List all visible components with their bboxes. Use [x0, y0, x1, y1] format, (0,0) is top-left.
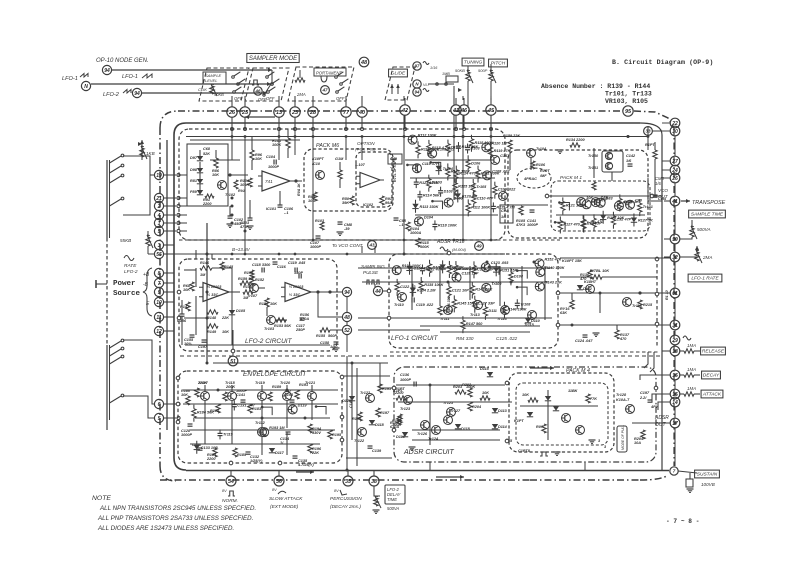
svg-text:R150: R150	[244, 271, 254, 275]
switch	[110, 339, 124, 348]
svg-text:1MB: 1MB	[442, 72, 450, 76]
resistor R186 56K	[192, 405, 215, 422]
junction	[655, 257, 659, 261]
svg-text:2MA: 2MA	[702, 255, 712, 260]
junction	[164, 221, 181, 224]
label OFF	[266, 96, 275, 101]
resistor C109 .022	[493, 182, 517, 199]
resistor R112 100K	[466, 199, 490, 216]
capacitor R115 4.7M	[491, 202, 516, 212]
resistor RVA 1K	[234, 180, 246, 193]
junction	[304, 417, 307, 420]
resistor R136 470	[579, 270, 592, 281]
svg-text:77: 77	[343, 110, 350, 116]
svg-text:13: 13	[276, 110, 282, 116]
svg-text:K1PT: K1PT	[514, 419, 524, 423]
svg-text:D110: D110	[531, 319, 541, 323]
terminal 52	[342, 325, 351, 334]
resistor R91 2200	[202, 194, 214, 206]
junction	[278, 461, 282, 465]
svg-text:10K: 10K	[270, 302, 277, 306]
wire	[180, 355, 660, 357]
resistor R205 10K	[480, 391, 490, 400]
wire	[662, 160, 670, 162]
junction	[392, 428, 396, 432]
switch	[110, 197, 124, 206]
box CM2	[602, 151, 636, 172]
svg-text:38: 38	[371, 479, 377, 485]
svg-text:VCO: VCO	[658, 188, 668, 193]
transistor C147	[491, 154, 510, 165]
diode R120 1M	[455, 189, 478, 202]
svg-text:11: 11	[156, 315, 161, 321]
svg-text:C121 10P: C121 10P	[452, 289, 469, 293]
svg-text:TRANSPOSE: TRANSPOSE	[692, 200, 726, 206]
svg-text:10K: 10K	[212, 173, 219, 177]
svg-text:10A: 10A	[308, 199, 315, 203]
wire	[510, 148, 612, 181]
resistor R195 470A	[328, 430, 342, 439]
resistor R89 10A	[308, 192, 317, 203]
junction	[164, 416, 181, 419]
resistor R147	[180, 302, 190, 311]
capacitor Tr119	[218, 429, 234, 439]
svg-text:94: 94	[134, 91, 140, 97]
svg-text:K10PT: K10PT	[312, 157, 324, 161]
wire	[554, 221, 565, 230]
junction	[176, 402, 180, 406]
wire	[405, 160, 498, 215]
wire	[662, 169, 670, 171]
svg-text:R146: R146	[200, 261, 210, 265]
label rotated	[447, 296, 451, 310]
junction	[164, 229, 181, 232]
svg-text:K18HT: K18HT	[584, 280, 597, 284]
junction	[654, 386, 658, 390]
svg-text:500VA: 500VA	[387, 506, 400, 511]
svg-text:Tr104: Tr104	[443, 167, 454, 171]
svg-text:R121 10K: R121 10K	[566, 203, 583, 207]
resistor 77K	[586, 394, 597, 403]
label K10PT IC10	[312, 157, 324, 166]
terminal 17	[670, 418, 680, 428]
terminal 2	[154, 201, 163, 210]
resistor D111	[483, 303, 497, 320]
resistor R191	[295, 383, 308, 399]
resistor 2MA	[295, 70, 306, 97]
wire	[404, 115, 491, 240]
junction	[674, 393, 677, 396]
resistor R184 2200	[206, 448, 217, 461]
svg-text:OFF: OFF	[336, 96, 345, 101]
svg-text:PACK M 4: PACK M 4	[566, 368, 590, 374]
wire	[164, 291, 174, 293]
transistor 10K	[577, 196, 594, 207]
resistor 1KB	[138, 140, 155, 160]
wire	[164, 316, 174, 318]
svg-text:D98: D98	[190, 168, 198, 172]
svg-text:TUNING: TUNING	[464, 60, 483, 66]
resistor R104 1000A	[406, 222, 422, 235]
junction	[176, 376, 180, 380]
terminal 12	[154, 326, 163, 335]
junction	[490, 135, 493, 138]
svg-text:C147: C147	[349, 398, 353, 408]
svg-text:D111: D111	[488, 309, 497, 313]
junction	[231, 205, 234, 208]
svg-text:D118: D118	[375, 423, 385, 427]
svg-text:39K: 39K	[342, 201, 349, 205]
resistor Tr131	[581, 215, 596, 232]
capacitor R118 100K	[432, 220, 457, 230]
svg-text:10K: 10K	[482, 391, 489, 395]
svg-text:C193: C193	[284, 393, 294, 397]
wire	[107, 160, 110, 238]
svg-text:4PY: 4PY	[650, 405, 659, 409]
svg-text:P89: P89	[190, 190, 198, 194]
wire	[196, 250, 212, 259]
svg-text:52: 52	[344, 328, 350, 334]
capacitor C137	[639, 391, 659, 409]
node 47	[321, 86, 330, 95]
svg-text:2.2/: 2.2/	[639, 396, 647, 400]
svg-text:C123 .093: C123 .093	[491, 261, 509, 265]
wire	[516, 269, 527, 278]
wire	[558, 201, 569, 210]
wire	[673, 128, 675, 466]
wire	[658, 402, 670, 410]
junction	[206, 253, 209, 256]
title text	[612, 59, 713, 66]
capacitor CM8 -39	[337, 222, 353, 235]
transistor C108 .022	[428, 147, 456, 158]
transistor R112 100K	[408, 134, 437, 145]
resistor 50KB tuning	[455, 66, 473, 108]
box option	[356, 152, 392, 207]
transistor Tr116	[623, 298, 643, 309]
wire	[453, 96, 455, 100]
junction	[447, 281, 450, 284]
svg-text:R185: R185	[237, 453, 247, 457]
svg-text:10K: 10K	[181, 393, 188, 397]
junction	[164, 196, 181, 199]
svg-text:8V: 8V	[334, 489, 339, 493]
svg-text:55KB: 55KB	[120, 238, 131, 243]
capacitor C193 .047	[284, 389, 295, 402]
svg-text:C136: C136	[400, 373, 410, 377]
wire	[166, 140, 168, 430]
svg-text:26: 26	[671, 176, 678, 182]
svg-text:1MA: 1MA	[687, 367, 696, 372]
wire	[96, 280, 107, 288]
junction	[244, 253, 247, 256]
wire	[107, 345, 110, 430]
wire	[674, 136, 676, 466]
svg-text:12: 12	[156, 329, 162, 335]
svg-text:PULSE: PULSE	[363, 270, 379, 275]
wire	[123, 340, 154, 404]
wire	[173, 135, 175, 458]
resistor R121 10K	[561, 197, 584, 214]
resistor R127 470	[558, 216, 581, 233]
svg-text:K10PT 15K: K10PT 15K	[562, 259, 582, 263]
terminal 49	[475, 242, 484, 251]
transistor D104	[414, 215, 433, 226]
terminal 21	[154, 193, 163, 202]
capacitor D103	[465, 144, 480, 154]
junction	[206, 317, 209, 320]
svg-text:55: 55	[156, 252, 162, 258]
transistor Tr126	[417, 421, 430, 437]
svg-text:-39: -39	[344, 227, 350, 231]
transistor Tr122	[360, 391, 375, 403]
wire	[558, 291, 670, 294]
junction	[505, 381, 509, 385]
svg-text:1000P: 1000P	[181, 433, 192, 437]
transistor R152 47K	[535, 257, 562, 268]
resistor C110 47P	[472, 190, 494, 207]
wire	[430, 462, 585, 470]
label PITCH	[489, 59, 508, 67]
resistor R151 10K	[259, 298, 277, 331]
junction	[462, 135, 465, 138]
svg-text:49: 49	[475, 244, 482, 249]
resistor D104	[446, 140, 461, 157]
switch	[110, 394, 124, 403]
capacitor D103	[438, 187, 453, 197]
diode DM3	[527, 412, 533, 417]
label rotated	[665, 290, 669, 300]
terminal 41	[451, 98, 461, 131]
svg-text:R202: R202	[462, 383, 472, 387]
capacitor R132 47K	[420, 264, 443, 274]
wire	[516, 286, 527, 295]
svg-text:D117: D117	[275, 451, 285, 455]
wire	[183, 404, 338, 430]
svg-text:25: 25	[241, 110, 249, 116]
svg-text:1MA: 1MA	[687, 343, 696, 348]
transistor Q-M1	[503, 134, 547, 169]
svg-text:ADSR CIRCUIT: ADSR CIRCUIT	[403, 449, 455, 456]
svg-text:100K: 100K	[420, 245, 429, 249]
wire	[190, 140, 300, 160]
label LFO-1 CIRCUIT	[391, 335, 439, 342]
svg-text:Tr122: Tr122	[354, 439, 365, 443]
junction	[453, 239, 456, 242]
resistor C92 47P	[611, 212, 631, 229]
transistor Tr111	[440, 306, 453, 322]
transistor D83	[596, 197, 613, 208]
svg-text:R152: R152	[255, 278, 265, 282]
svg-text:500P: 500P	[478, 68, 488, 73]
svg-text:R155: R155	[316, 334, 326, 338]
resistor R153 56K	[274, 318, 291, 328]
resistor D106	[466, 155, 481, 172]
resistor R141 56K	[470, 282, 493, 299]
svg-text:Power: Power	[113, 280, 136, 288]
svg-text:C119 .022: C119 .022	[416, 303, 434, 307]
transistor QM4b	[576, 426, 585, 435]
svg-text:SLOW ATTACK: SLOW ATTACK	[269, 496, 303, 502]
svg-text:7: 7	[673, 469, 676, 474]
terminal 33	[644, 127, 653, 136]
switch box sample level	[199, 68, 249, 101]
junction	[312, 135, 315, 138]
svg-text:95: 95	[625, 109, 632, 115]
svg-text:2200: 2200	[394, 391, 404, 395]
resistor R145	[220, 262, 234, 270]
svg-text:ENVELOPE CIRCUIT: ENVELOPE CIRCUIT	[243, 371, 307, 378]
junction	[346, 469, 349, 472]
diode D117	[269, 448, 285, 455]
transistor Q-M6a	[316, 171, 325, 180]
resistor R194 330V	[308, 424, 322, 435]
junction	[286, 389, 289, 392]
transistor Tr127	[444, 409, 461, 425]
wire	[159, 128, 161, 466]
label R103	[315, 219, 325, 230]
svg-text:C124 .047: C124 .047	[575, 339, 593, 343]
wire	[205, 401, 312, 455]
svg-text:19: 19	[156, 173, 162, 179]
svg-text:R151: R151	[259, 302, 268, 306]
svg-text:LFO-1 RATE: LFO-1 RATE	[691, 276, 719, 282]
wire	[520, 401, 598, 440]
svg-text:8V: 8V	[222, 489, 227, 493]
label 11BK	[568, 389, 578, 393]
resistor R50 39K	[342, 196, 354, 205]
resistor R115 100K	[416, 238, 430, 249]
junction	[674, 422, 677, 425]
resistor C121 10P	[447, 283, 470, 300]
box M4 inner	[516, 383, 608, 445]
resistor R1PT	[645, 142, 657, 168]
wire arrow	[530, 366, 554, 370]
svg-text:2200: 2200	[206, 457, 216, 461]
terminal 77	[341, 100, 351, 131]
svg-text:Tr119: Tr119	[255, 381, 266, 385]
capacitor C106	[278, 191, 294, 215]
junction	[340, 438, 344, 442]
wire	[294, 96, 296, 100]
wire	[160, 111, 178, 128]
svg-text:ATTACK: ATTACK	[702, 392, 722, 398]
resistor R105 47K	[515, 206, 526, 227]
svg-text:Tr104: Tr104	[536, 147, 547, 151]
svg-text:LEVEL: LEVEL	[205, 78, 217, 83]
transistor Tr117	[198, 381, 210, 401]
svg-text:LFO-2: LFO-2	[103, 92, 120, 98]
terminal 24	[670, 165, 680, 175]
junction	[403, 239, 406, 242]
terminal 51	[228, 351, 238, 366]
wire	[164, 282, 174, 284]
terminal 8	[154, 268, 163, 277]
transistor Tr123	[400, 396, 413, 412]
junction	[231, 214, 234, 217]
resistor R187	[223, 385, 236, 401]
capacitor C124	[575, 335, 593, 343]
svg-text:C110 47P: C110 47P	[477, 196, 494, 200]
transistor D83	[591, 196, 608, 207]
capacitor C197	[198, 340, 208, 349]
svg-text:C133 10P: C133 10P	[201, 446, 218, 450]
resistor R191b	[378, 384, 391, 393]
terminal 18	[670, 346, 680, 356]
transistor C108 .022	[483, 169, 511, 180]
svg-text:50KB: 50KB	[455, 68, 465, 73]
transistor C90 47P	[582, 198, 607, 209]
terminal 22	[670, 118, 680, 128]
svg-text:94: 94	[104, 68, 110, 74]
wire	[358, 268, 552, 282]
svg-text:PITCH: PITCH	[491, 61, 506, 67]
svg-text:R127 1K: R127 1K	[638, 218, 653, 222]
wire	[196, 268, 232, 292]
terminal 27	[670, 156, 680, 166]
wire	[174, 253, 505, 255]
terminal 1	[154, 218, 163, 227]
transistor R120 1M	[482, 141, 508, 152]
svg-text:97: 97	[415, 64, 420, 69]
svg-text:R159 22K: R159 22K	[503, 134, 520, 138]
wire	[662, 177, 670, 179]
svg-text:46: 46	[460, 108, 468, 114]
transistor R126 1K	[614, 200, 639, 211]
potentiometer 55KB	[120, 231, 153, 248]
terminal 55	[154, 249, 163, 258]
svg-text:R215: R215	[643, 303, 653, 307]
wire	[560, 257, 670, 259]
svg-text:1/6: 1/6	[501, 215, 507, 219]
svg-text:77K: 77K	[590, 397, 597, 401]
svg-text:R1 10: R1 10	[665, 290, 669, 300]
terminal 29	[670, 335, 680, 345]
svg-text:Source: Source	[113, 290, 141, 298]
node N	[413, 80, 430, 88]
terminal 30	[670, 126, 680, 136]
capacitor C104 1000P	[266, 155, 279, 169]
terminal 14	[670, 397, 680, 407]
wire	[398, 385, 512, 445]
capacitor C155	[184, 335, 195, 346]
svg-text:28: 28	[309, 110, 317, 116]
wire	[310, 239, 404, 241]
svg-text:OFF: OFF	[234, 96, 243, 101]
resistor R148 22K	[207, 310, 229, 320]
wire	[344, 376, 392, 458]
resistor R190 100K	[352, 412, 362, 421]
switch	[110, 347, 124, 356]
label TUNING	[462, 58, 484, 66]
wire	[164, 253, 174, 255]
wire	[374, 284, 376, 287]
svg-text:Tr110: Tr110	[394, 303, 405, 307]
junction	[392, 386, 396, 390]
switch box glide	[385, 67, 415, 100]
transistor R131 100K	[392, 264, 421, 275]
wire	[318, 292, 342, 317]
svg-text:470A: 470A	[299, 317, 309, 321]
resistor 10K	[522, 393, 538, 402]
svg-text:Tr126: Tr126	[417, 432, 428, 436]
transistor Tr107	[244, 270, 259, 298]
transistor Tr120	[280, 381, 292, 401]
junction	[674, 292, 677, 295]
svg-text:R134 2.2M: R134 2.2M	[417, 289, 436, 293]
junction	[164, 173, 181, 176]
resistor R147 560	[461, 316, 484, 333]
